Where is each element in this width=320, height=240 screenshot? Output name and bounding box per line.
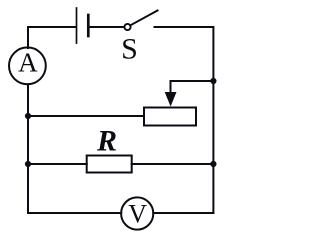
junction dot: right rail / wiper branch <box>210 78 216 84</box>
junction dot: left rail / resistor branch <box>25 161 31 167</box>
wire: resistor R to right rail <box>132 163 214 165</box>
wire: left rail to resistor R <box>28 163 87 165</box>
resistor R body <box>87 156 132 173</box>
battery short negative plate <box>87 15 90 36</box>
rheostat body box <box>144 108 196 126</box>
svg-text:V: V <box>128 200 147 229</box>
switch S blade (open) <box>131 11 158 26</box>
svg-text:S: S <box>121 33 138 66</box>
svg-text:R: R <box>96 124 117 157</box>
ammeter A body circle <box>9 47 46 84</box>
battery long positive plate <box>76 8 78 43</box>
svg-text:A: A <box>18 47 38 77</box>
wire: top-left corner from ammeter top to battery left plate <box>28 27 76 48</box>
wire: switch right contact to top-right corner and down right rail <box>155 27 214 213</box>
junction dot: right rail / resistor branch <box>210 161 216 167</box>
voltmeter V body circle <box>121 197 153 229</box>
wire: battery to switch pivot <box>90 26 124 28</box>
rheostat wiper arrowhead <box>165 92 177 107</box>
wire: left rail to rheostat left terminal <box>28 115 144 117</box>
switch S pivot circle <box>124 24 130 30</box>
wire: left rail from ammeter bottom to bottom-left corner and to voltmeter <box>28 84 121 213</box>
wire: voltmeter right terminal to bottom-right corner <box>153 212 213 214</box>
junction dot: left rail / rheostat branch <box>25 113 31 119</box>
wire: rheostat wiper stem up and over to right rail <box>171 81 214 100</box>
